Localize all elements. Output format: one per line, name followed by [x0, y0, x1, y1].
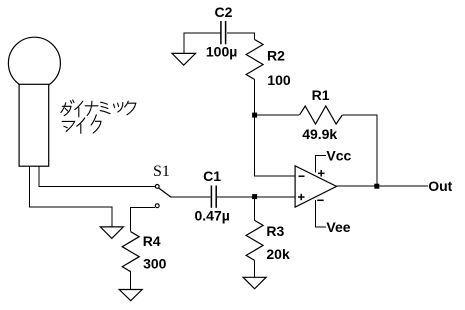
katakana DA: [61, 103, 66, 113]
wire R4 to ground: [130, 272, 132, 290]
svg-text:0.47µ: 0.47µ: [195, 208, 230, 224]
wire C1 to opamp plus input: [217, 196, 295, 198]
switch S1 bottom contact: [155, 204, 159, 208]
wire R1 to feedback corner: [342, 115, 377, 186]
katakana small TSU: [114, 104, 115, 107]
junction C1/R3/plus: [252, 194, 257, 199]
katakana NA: [85, 105, 98, 107]
wire R2 bottom to junction: [254, 80, 256, 116]
ground C2: [172, 53, 196, 65]
output wire: [337, 185, 429, 187]
junction output/feedback: [374, 184, 379, 189]
wire junction down to R3: [254, 197, 256, 220]
svg-text:Out: Out: [428, 178, 452, 194]
svg-text:100: 100: [267, 72, 291, 88]
svg-text:R1: R1: [312, 87, 330, 103]
svg-text:C1: C1: [203, 168, 221, 184]
svg-text:49.9k: 49.9k: [302, 126, 337, 142]
svg-text:Vee: Vee: [326, 219, 350, 235]
Vcc pin: [316, 156, 326, 173]
svg-text:Vcc: Vcc: [326, 148, 351, 164]
label dynamic mic (Japanese katakana drawn as strokes): [61, 100, 136, 133]
capacitor C2 left wire: [184, 33, 220, 53]
ground R4: [119, 290, 142, 301]
wire minus branch: [255, 115, 296, 176]
Vee pin: [316, 200, 326, 227]
katakana MI: [101, 102, 108, 104]
svg-text:100µ: 100µ: [206, 44, 237, 60]
resistor R3 zigzag: [246, 220, 263, 260]
svg-text:C2: C2: [215, 4, 233, 20]
wire C2 right to R2 top: [227, 33, 255, 40]
op-amp minus input marker: [299, 175, 305, 177]
svg-text:300: 300: [143, 256, 167, 272]
wire mic left terminal down: [30, 166, 112, 227]
svg-text:20k: 20k: [266, 246, 290, 262]
katakana KU: [91, 115, 96, 125]
katakana I: [75, 101, 83, 109]
katakana I: [77, 118, 85, 126]
capacitor C2 plates: [220, 21, 222, 44]
resistor R2 zigzag: [246, 40, 263, 80]
junction R2/R1/minus: [252, 113, 257, 118]
svg-text:R3: R3: [266, 223, 284, 239]
op-amp V+ marker: [318, 172, 325, 174]
resistor R4 zigzag: [122, 232, 139, 272]
switch S1 top contact: [155, 185, 159, 189]
switch S1 lever: [159, 188, 171, 197]
katakana KU: [125, 101, 129, 107]
op-amp plus input marker: [298, 196, 305, 198]
resistor R1 zigzag: [300, 106, 343, 124]
svg-text:R4: R4: [143, 233, 161, 249]
op-amp V- marker: [317, 199, 324, 201]
katakana MA: [62, 121, 75, 131]
svg-text:R2: R2: [267, 48, 285, 64]
capacitor C1 plates: [210, 186, 212, 208]
svg-text:S1: S1: [153, 163, 170, 180]
ground R3: [243, 277, 266, 289]
wire junction to R1: [255, 114, 299, 116]
wire R3 to ground: [254, 260, 256, 277]
ground mic: [100, 227, 123, 239]
microphone body (dynamic mic): [8, 37, 60, 89]
wire mic right terminal to switch: [39, 166, 155, 186]
wire switch bottom contact to R4: [131, 207, 155, 231]
op-amp U1 triangle: [295, 166, 336, 207]
wire switch to C1: [171, 196, 211, 198]
